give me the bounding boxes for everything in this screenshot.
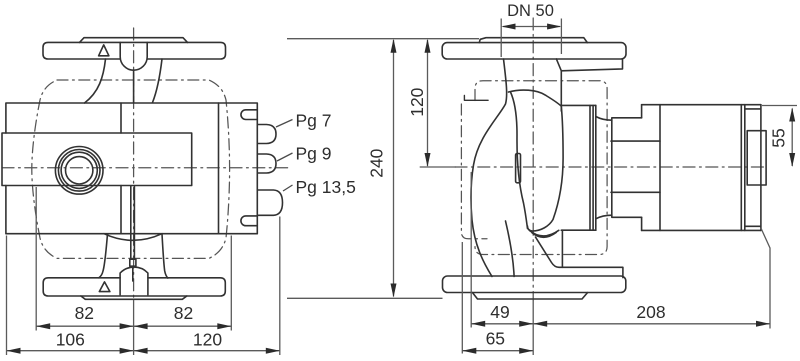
arrows 106|120	[7, 348, 21, 354]
bottom pipe flange	[43, 278, 225, 296]
ext line center bottom left view	[133, 300, 135, 355]
shaft slot lines bottom	[131, 186, 135, 259]
DN50 dim line	[503, 26, 560, 28]
flange hub tab right	[556, 59, 622, 71]
ext center bottom right view	[532, 300, 534, 355]
front plate	[2, 133, 192, 186]
motor body	[642, 105, 761, 231]
vent screw circles	[55, 147, 103, 195]
phantom motor face line	[461, 104, 487, 239]
phantom motor outline side	[475, 81, 607, 255]
arrows 208	[533, 321, 547, 327]
vertical center line	[133, 28, 135, 300]
union bell top	[120, 42, 147, 70]
impeller bottom rim arc 2	[532, 232, 556, 237]
svg-text:240: 240	[367, 148, 387, 177]
svg-text:Pg 7: Pg 7	[296, 111, 332, 131]
dim line 106-120	[7, 350, 280, 352]
top flange side	[442, 43, 626, 59]
svg-text:Pg 13,5: Pg 13,5	[296, 177, 356, 197]
volute outer profile	[471, 59, 507, 277]
horizontal center line right view	[455, 166, 766, 168]
arrows 65	[462, 348, 476, 354]
motor step verticals	[641, 105, 643, 231]
lantern cap bottom	[561, 229, 596, 231]
top pipe flange	[43, 42, 226, 59]
240 dim line	[393, 40, 395, 297]
ext line 120 right	[279, 217, 281, 356]
DN50 ext lines	[501, 19, 561, 58]
cable gland Pg 13,5	[257, 190, 282, 215]
leader Pg 13,5	[283, 185, 293, 191]
motor rib	[659, 105, 661, 231]
body vertical line upper	[120, 103, 122, 133]
terminal box divider	[218, 103, 220, 234]
vent strip on impeller	[516, 154, 521, 183]
svg-text:82: 82	[75, 303, 94, 323]
foot plate	[559, 267, 623, 277]
top flange hub side	[479, 38, 587, 43]
dim line 49 / 208	[471, 323, 770, 325]
55 dim line	[791, 109, 793, 167]
lantern fillet bottom	[596, 215, 612, 219]
phantom corner bracket top	[464, 96, 488, 101]
dim line 82-82	[36, 325, 231, 327]
impeller left edge	[511, 92, 528, 229]
bottom flange rim	[81, 296, 187, 299]
foot inner line	[506, 221, 515, 277]
bottom flange side	[443, 276, 626, 293]
svg-text:82: 82	[174, 303, 193, 323]
top vent stem	[133, 70, 135, 102]
flow triangle bottom	[99, 282, 110, 292]
dim line 65	[462, 350, 533, 352]
impeller right edge	[527, 106, 563, 231]
mid box	[612, 118, 642, 218]
mid box seams	[611, 141, 660, 192]
arrows 49	[471, 321, 485, 327]
arrows 82|82	[36, 323, 50, 329]
leader lines for cable glands	[276, 120, 293, 192]
svg-text:65: 65	[486, 329, 505, 349]
arrows 240	[391, 39, 397, 53]
leader Pg 9	[277, 153, 293, 161]
volute drop line	[561, 230, 563, 267]
svg-text:120: 120	[407, 87, 427, 116]
svg-text:Pg 9: Pg 9	[296, 144, 332, 164]
arrows DN50	[501, 24, 515, 30]
lantern verticals	[590, 105, 596, 230]
cable gland Pg 9	[257, 154, 276, 173]
svg-text:120: 120	[193, 330, 222, 350]
union bell bottom	[120, 267, 148, 295]
leader Pg 7	[276, 120, 293, 128]
nameplate bump	[747, 131, 766, 185]
svg-text:106: 106	[56, 330, 85, 350]
ext line 82 left	[35, 187, 37, 331]
neck leg bottom-right	[162, 234, 168, 278]
ext line 106 left	[6, 236, 8, 356]
flow triangle top	[99, 45, 109, 56]
svg-text:208: 208	[636, 302, 665, 322]
body vertical line lower	[120, 186, 122, 234]
240 ext bottom	[287, 297, 443, 299]
ext 208 right	[761, 228, 770, 329]
impeller top edge	[509, 90, 562, 106]
box slot top	[241, 110, 257, 120]
120v bottom ext	[420, 166, 456, 168]
end cap	[745, 105, 761, 231]
neck leg top-right	[153, 59, 163, 103]
ext line 82 right	[230, 236, 232, 331]
arrows 120v	[425, 39, 431, 53]
svg-text:DN 50: DN 50	[507, 2, 554, 20]
slot tick	[130, 259, 136, 266]
svg-text:49: 49	[490, 302, 509, 322]
stem below tick	[132, 266, 134, 281]
55 ext top	[762, 105, 797, 107]
foot slant	[536, 237, 560, 267]
lantern cap top	[561, 104, 596, 106]
ext 49 left	[470, 172, 472, 328]
120v dim line	[427, 40, 429, 166]
240 ext top	[287, 38, 479, 40]
neck right line	[560, 71, 562, 111]
horizontal center line	[2, 167, 290, 169]
phantom motor outline (rotated position)	[32, 80, 230, 258]
svg-text:55: 55	[769, 128, 789, 147]
arc between legs bottom	[104, 234, 162, 241]
neck leg bottom-left	[99, 234, 108, 278]
vertical center line right view	[532, 18, 534, 300]
main body	[6, 103, 257, 234]
motor end double lines	[741, 105, 745, 231]
lantern fillet top	[596, 117, 612, 121]
bottom flange rim side	[473, 293, 588, 299]
arrows 55	[789, 108, 795, 122]
neck leg top-left	[85, 59, 106, 103]
ext 65 left	[461, 242, 463, 354]
cable gland Pg 7	[257, 125, 276, 144]
top flange hub	[80, 38, 188, 43]
impeller bottom rim arc 1	[530, 230, 559, 236]
box slot bottom	[241, 216, 257, 226]
